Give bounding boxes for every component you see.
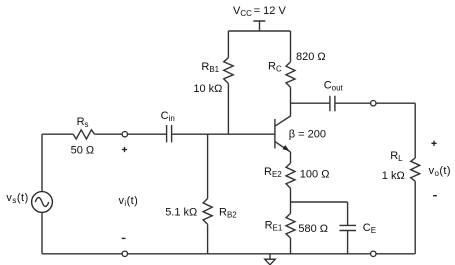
resistor RB1 xyxy=(224,58,234,84)
wire RB1 lower xyxy=(227,84,229,135)
source vs AC circle xyxy=(32,192,53,213)
ground xyxy=(269,254,271,259)
resistor Rs xyxy=(73,130,94,139)
wire right edge upper xyxy=(414,103,416,158)
svg-text:1 kΩ: 1 kΩ xyxy=(382,170,405,182)
wire emitter junction to CE xyxy=(291,201,348,203)
resistor RC xyxy=(286,62,295,87)
resistor RE2 xyxy=(286,163,295,188)
label minus vi xyxy=(122,237,126,239)
wire Rs to Cin xyxy=(95,133,167,135)
wire CE lower xyxy=(347,231,349,254)
capacitor CE xyxy=(340,225,357,230)
transistor Q1 emitter diagonal xyxy=(275,142,291,152)
svg-text:100 Ω: 100 Ω xyxy=(300,168,330,180)
transistor Q1 base bar xyxy=(274,119,276,149)
wire RE2 to RE1 xyxy=(290,188,292,213)
label plus vi xyxy=(122,147,127,152)
wire CE upper xyxy=(347,202,349,225)
svg-text:vo(t): vo(t) xyxy=(429,165,451,178)
node vi+ circle xyxy=(122,132,127,137)
wire emitter to RE2 xyxy=(290,152,292,163)
wire RC lower to collector xyxy=(290,87,292,116)
capacitor Cin xyxy=(167,125,172,142)
wire RB1 upper xyxy=(227,31,229,58)
source vs sine xyxy=(35,198,49,207)
wire left edge upper xyxy=(41,134,43,191)
svg-text:β = 200: β = 200 xyxy=(289,128,326,140)
svg-text:vs(t): vs(t) xyxy=(6,192,28,205)
wire left edge lower xyxy=(41,212,43,253)
wire bottom rail xyxy=(42,253,415,255)
resistor RB2 xyxy=(203,199,212,225)
transistor Q1 emitter arrow xyxy=(283,145,290,151)
wire RB2 upper xyxy=(207,134,209,198)
wire top rail xyxy=(228,30,290,32)
node vo- circle xyxy=(371,251,376,256)
wire collector to Cout xyxy=(291,102,330,104)
wire RC upper xyxy=(290,31,292,62)
capacitor Cout xyxy=(330,96,335,112)
svg-text:50 Ω: 50 Ω xyxy=(71,144,95,156)
svg-text:580 Ω: 580 Ω xyxy=(298,223,328,235)
wire Cin to base xyxy=(172,133,275,135)
node vo+ circle xyxy=(371,101,376,106)
resistor RL xyxy=(411,158,420,181)
wire top-left from source to Rs xyxy=(42,133,73,135)
label minus vo xyxy=(433,195,437,197)
label plus vo xyxy=(431,141,436,146)
svg-text:vi(t): vi(t) xyxy=(119,195,139,208)
wire RE1 to bottom xyxy=(290,238,292,254)
wire right edge lower xyxy=(414,181,416,254)
svg-text:5.1 kΩ: 5.1 kΩ xyxy=(165,206,197,218)
node vi- circle xyxy=(122,251,127,256)
wire Cout to right edge xyxy=(335,102,415,104)
resistor RE1 xyxy=(286,213,295,238)
svg-text:10 kΩ: 10 kΩ xyxy=(193,83,222,95)
wire RB2 lower xyxy=(207,224,209,254)
svg-text:820 Ω: 820 Ω xyxy=(296,51,326,63)
transistor Q1 collector diagonal xyxy=(275,116,291,126)
VCC symbol xyxy=(253,21,265,31)
